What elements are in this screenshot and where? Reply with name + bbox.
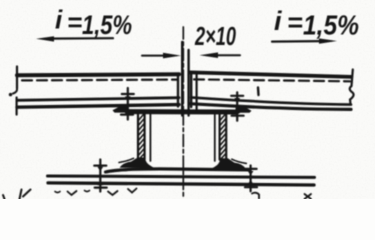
right roof panel break line (right end) <box>350 70 354 105</box>
right roof panel bottom edge <box>190 104 351 110</box>
weld mark lower left <box>94 160 106 192</box>
label i=1,5% left <box>55 5 132 41</box>
left roof panel break line (left end) <box>9 67 17 115</box>
svg-text:=: = <box>287 8 303 38</box>
weld mark lower right <box>245 166 257 192</box>
svg-text:i: i <box>55 5 63 35</box>
cut-off caption letter fragments <box>3 189 311 200</box>
left roof panel bottom edge <box>17 105 179 108</box>
left roof panel end rib at ridge <box>177 75 179 107</box>
right roof panel lower hidden edge <box>191 97 351 104</box>
label i=1,5% right <box>274 6 359 41</box>
weld mark upper left <box>121 88 134 120</box>
right panel rib (hatched web) <box>215 113 226 162</box>
right roof panel top edge <box>190 72 351 77</box>
left roof panel lower hidden edge <box>17 98 179 101</box>
svg-text:2×10: 2×10 <box>194 21 236 51</box>
truss chord second line <box>48 183 314 185</box>
right roof panel end rib at ridge <box>191 74 196 112</box>
bearing wedge right <box>235 105 252 112</box>
beam top flange <box>127 109 237 114</box>
svg-text:i: i <box>274 6 282 36</box>
centerline of ridge <box>182 27 184 199</box>
truss chord top line <box>48 176 315 177</box>
weld mark upper right <box>231 92 243 120</box>
bearing plate on chord <box>106 169 249 172</box>
weld tack mark on right panel <box>257 88 260 96</box>
svg-text:=: = <box>67 7 82 37</box>
dimension arrow right of ridge plate <box>200 52 241 58</box>
ridge plate 2x10 <box>182 42 188 116</box>
slope arrow left <box>36 36 113 41</box>
bearing wedge left <box>113 105 130 112</box>
left roof panel hidden line <box>22 78 177 81</box>
left roof panel top edge <box>17 72 179 77</box>
dimension arrow left of ridge plate <box>142 53 181 59</box>
right foot fillet welds <box>212 158 247 169</box>
left foot fillet welds <box>119 158 154 168</box>
left panel rib (hatched web) <box>138 113 150 162</box>
svg-text:1,5%: 1,5% <box>82 10 132 40</box>
slope arrow right <box>272 38 337 43</box>
right roof panel hidden line <box>194 79 350 81</box>
svg-text:1,5%: 1,5% <box>303 10 359 41</box>
